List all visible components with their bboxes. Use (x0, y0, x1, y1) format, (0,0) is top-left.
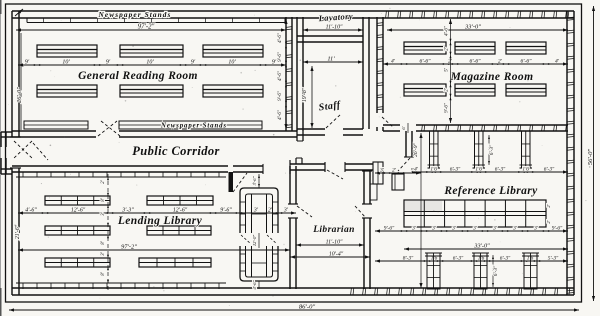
svg-text:9′: 9′ (272, 60, 277, 66)
reference stack north 1 (428, 131, 441, 168)
dimension 6'-3" vertical (north stacks) (488, 135, 495, 165)
svg-text:12′-6″: 12′-6″ (71, 208, 86, 214)
svg-text:3′: 3′ (512, 226, 518, 232)
svg-text:6′-6″: 6′-6″ (469, 59, 481, 65)
svg-text:6′-6″: 6′-6″ (419, 59, 431, 65)
svg-text:4′-6″: 4′-6″ (278, 109, 283, 120)
wall: staff block west (297, 17, 303, 141)
lending shelf row 1 east (147, 196, 213, 205)
wall: lobby north segment A (290, 158, 325, 174)
wall: magazine room west (377, 17, 383, 131)
magazine table M2 (455, 42, 495, 54)
staff door swing dash (326, 114, 341, 128)
svg-text:4′-6″: 4′-6″ (278, 32, 283, 43)
newspaper stand southeast (119, 121, 262, 129)
svg-text:3′-3″: 3′-3″ (121, 208, 134, 214)
label: Newspaper Stands (bottom) (160, 123, 227, 130)
room label: General Reading Room (78, 70, 198, 82)
magazine table M3 (506, 42, 546, 54)
dimension chain lending centre (101, 174, 109, 292)
dimension row (magazine tables) (383, 59, 568, 66)
dimension row (lending shelves) (18, 207, 296, 215)
label: Newspaper Stands (top) (98, 10, 172, 19)
svg-text:1′6: 1′6 (475, 167, 482, 173)
svg-text:4′-6″: 4′-6″ (25, 207, 37, 214)
svg-text:Newspaper Stands: Newspaper Stands (160, 123, 227, 130)
svg-text:9′-6″: 9′-6″ (445, 102, 450, 113)
svg-text:6′-3″: 6′-3″ (450, 167, 461, 173)
newspaper stand shelf along north wall (27, 18, 285, 23)
svg-text:26′-9″: 26′-9″ (413, 142, 419, 156)
librarian west door dash (297, 206, 312, 217)
svg-text:6′-3″: 6′-3″ (493, 265, 499, 276)
dimension 97'-2" (lending library) (18, 244, 290, 252)
dimension row (north stacks) (412, 167, 568, 174)
svg-text:3′: 3′ (492, 226, 498, 232)
svg-text:33′-0″: 33′-0″ (464, 24, 481, 31)
reference stack south 1 (425, 253, 442, 289)
table T2 (120, 45, 183, 57)
svg-text:4′-6″: 4′-6″ (278, 70, 283, 81)
magazine table M1 (404, 42, 446, 54)
reference stack south 2 (472, 253, 489, 289)
table T5 (120, 85, 183, 97)
svg-text:3′: 3′ (253, 208, 259, 214)
svg-text:3′: 3′ (283, 208, 289, 214)
dimension 6' (magazine door opening) (401, 123, 408, 133)
svg-text:19′-8″: 19′-8″ (302, 87, 308, 102)
dimension 9'-6" to desk (0, 0, 1, 1)
corner leader arrow (top-left) (15, 9, 23, 16)
svg-text:9′-6″: 9′-6″ (384, 226, 395, 232)
dimension chain right of reading room (278, 19, 288, 129)
wall: lobby north segment B (345, 162, 373, 172)
svg-text:3′: 3′ (533, 226, 539, 232)
svg-text:21′-6″: 21′-6″ (15, 224, 21, 239)
wall: staff east (363, 17, 369, 129)
svg-text:10′: 10′ (228, 60, 236, 66)
wall: librarian west (288, 166, 298, 289)
svg-text:12′-6″: 12′-6″ (173, 208, 188, 214)
magazine table M6 (506, 84, 546, 96)
svg-text:Magazine Room: Magazine Room (450, 71, 534, 83)
dimension 3' 2' 9' (lobby) (375, 168, 421, 175)
reference stack north 2 (473, 131, 486, 168)
dimension row: 9'/10' spacing (reading tables) (18, 60, 286, 67)
wall: lavatory south (297, 36, 363, 42)
lending shelf row 2 west (45, 226, 110, 235)
svg-text:3′: 3′ (379, 168, 385, 174)
dimension chain magazine centre (445, 19, 453, 123)
wall: reading room / corridor (south wall of reading room) (12, 131, 297, 137)
wall: left exterior upper (10, 11, 21, 137)
svg-text:1′6: 1′6 (522, 167, 529, 173)
svg-text:86′-0″: 86′-0″ (299, 304, 316, 311)
svg-text:3′-6″: 3′-6″ (252, 176, 257, 185)
svg-text:1′6: 1′6 (430, 167, 437, 173)
lobby door swing dash (327, 170, 343, 179)
magazine door swing dash (382, 117, 394, 128)
shelf band along lending north wall (16, 172, 226, 177)
desk vertical dims (252, 174, 260, 290)
shelf band along lending south wall (16, 283, 226, 289)
svg-text:Lending Library: Lending Library (117, 215, 203, 227)
svg-text:10′: 10′ (62, 60, 70, 66)
lending shelf row 3 east (139, 258, 211, 267)
reference stack north 3 (520, 131, 533, 168)
table T1 (37, 45, 97, 57)
svg-text:6′-3″: 6′-3″ (489, 144, 495, 155)
reference stack south 3 (522, 253, 539, 289)
svg-text:11′-10″: 11′-10″ (326, 240, 343, 246)
desk gate dashes (241, 235, 277, 244)
room label: Magazine Room (450, 71, 534, 83)
stair door swing dash (398, 158, 410, 171)
svg-text:6′-3″: 6′-3″ (544, 167, 555, 173)
room label: Lavatory (317, 11, 353, 23)
square pier in lobby (392, 174, 404, 190)
wall: left exterior lower (10, 168, 21, 295)
svg-text:9′-6″: 9′-6″ (552, 226, 563, 232)
svg-text:8′-3″: 8′-3″ (403, 256, 414, 262)
svg-text:6′-3″: 6′-3″ (495, 167, 506, 173)
svg-text:Public Corridor: Public Corridor (132, 144, 220, 158)
dimension 11'-10" (librarian) (296, 240, 364, 247)
magazine table M5 (455, 84, 495, 96)
room label: Librarian (312, 225, 355, 235)
wall: lending library north (12, 164, 263, 174)
svg-text:General Reading Room: General Reading Room (78, 70, 198, 82)
dimension 33'-0" (reference) (404, 243, 568, 251)
scan edge shading (0, 0, 2, 316)
svg-text:3′: 3′ (411, 226, 417, 232)
svg-text:11′: 11′ (327, 56, 335, 63)
svg-text:6′-3″: 6′-3″ (500, 256, 511, 262)
delivery desk upper U (240, 188, 278, 233)
table T4 (37, 85, 97, 97)
svg-text:3′: 3′ (451, 226, 457, 232)
wall: reading room east (286, 17, 292, 131)
dimension 11' (staff width) (303, 56, 363, 64)
wall: librarian east (362, 171, 377, 289)
librarian east door dash (355, 206, 366, 218)
dimension row (reference tables) (375, 226, 568, 233)
room label: Staff (318, 99, 342, 113)
reference study table band (404, 200, 546, 227)
dimension 21'-6" (lending height) (15, 224, 21, 239)
svg-text:3′: 3′ (472, 226, 478, 232)
lending library door leaf (229, 172, 248, 192)
svg-text:6′-6″: 6′-6″ (520, 59, 532, 65)
dimension 86'-0" (bottom overall width) (9, 304, 579, 312)
corner pier at lobby (373, 162, 383, 184)
svg-text:9′: 9′ (106, 60, 111, 66)
table T6 (203, 85, 263, 97)
magazine table M4 (404, 84, 446, 96)
dimension 19'-8" (staff height) (302, 66, 314, 128)
lending shelf row 3 west (45, 258, 110, 267)
dimension 10'-4" (librarian) (290, 251, 370, 259)
room label: Lending Library (117, 215, 203, 227)
reading room door swing dashes (98, 121, 120, 136)
svg-text:11′-10″: 11′-10″ (326, 25, 343, 31)
svg-text:5′-3″: 5′-3″ (548, 256, 559, 262)
reference table band end dims (546, 203, 551, 223)
svg-text:9′: 9′ (25, 60, 30, 66)
dimension 11'-10" (lavatory) (303, 25, 363, 32)
svg-text:97′-2″: 97′-2″ (121, 244, 137, 251)
svg-text:10′-4″: 10′-4″ (329, 251, 344, 258)
wall: bottom exterior (12, 288, 574, 295)
dimension 97'-2" (reading room width) (16, 24, 286, 32)
svg-text:56′-0″: 56′-0″ (587, 149, 594, 166)
dimension 26'-9" (reference height) (413, 133, 423, 288)
lending shelf row 1 west (45, 196, 110, 205)
svg-text:6′-3″: 6′-3″ (453, 256, 464, 262)
porch door swing dashes (14, 141, 48, 160)
dimension 6'-3" vertical (south stacks) (492, 255, 499, 287)
delivery desk lower U (240, 246, 278, 281)
table T3 (203, 45, 263, 57)
svg-text:Newspaper Stands: Newspaper Stands (98, 10, 172, 19)
newspaper stand southwest (24, 121, 88, 129)
dimension 33'-0" (magazine room) (387, 24, 568, 32)
dimension 56'-0" (right overall height) (587, 6, 595, 301)
svg-text:33′-0″: 33′-0″ (473, 243, 490, 250)
svg-text:9′: 9′ (191, 60, 196, 66)
svg-text:9′-6″: 9′-6″ (278, 51, 283, 62)
dimension row (south stacks) (375, 256, 568, 263)
wall: top exterior (12, 11, 574, 18)
svg-text:Reference Library: Reference Library (443, 185, 538, 197)
svg-text:10′: 10′ (146, 60, 154, 66)
room label: Reference Library (443, 185, 538, 197)
svg-text:3′: 3′ (431, 226, 437, 232)
wall: lobby stair wall (404, 131, 414, 157)
svg-text:Librarian: Librarian (312, 225, 355, 235)
svg-text:26′-0″: 26′-0″ (16, 87, 23, 103)
wall: staff south (297, 129, 363, 135)
wall: magazine south / reference north (383, 125, 568, 131)
entrance porch walls (1, 132, 12, 174)
lending shelf row 2 east (147, 226, 211, 235)
svg-text:4′-6″: 4′-6″ (445, 25, 450, 36)
svg-text:9′-6″: 9′-6″ (220, 208, 232, 214)
svg-text:12′-0″: 12′-0″ (252, 235, 257, 246)
svg-text:97′-2″: 97′-2″ (138, 24, 155, 31)
svg-text:4′-6″: 4′-6″ (252, 280, 257, 289)
wall: right exterior (567, 11, 574, 295)
svg-text:9′-6″: 9′-6″ (278, 90, 283, 101)
room label: Public Corridor (132, 144, 220, 158)
dimension 26'-0" (reading room height) (16, 33, 23, 130)
